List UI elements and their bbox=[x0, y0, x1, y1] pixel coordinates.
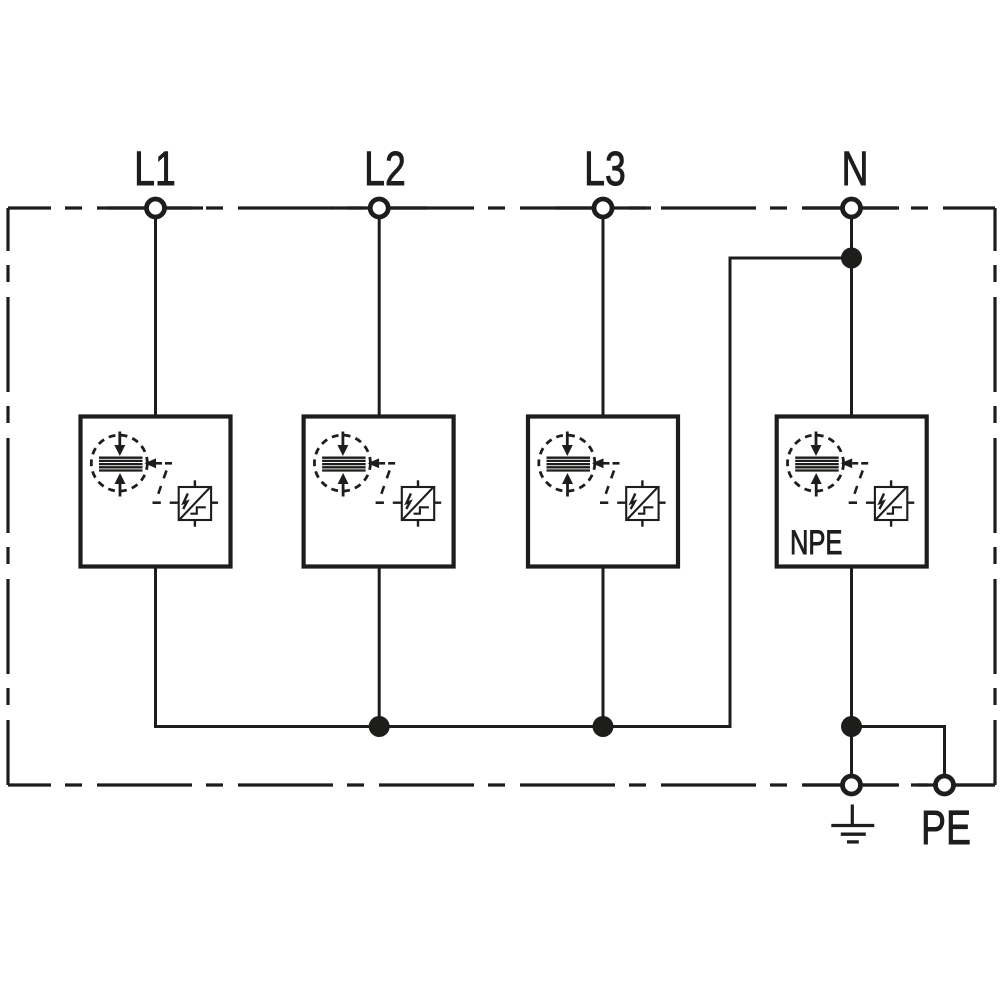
junction node NPE/PE bbox=[841, 716, 862, 737]
svg-text:L1: L1 bbox=[134, 143, 176, 197]
SPD module symbol L2 bbox=[314, 432, 441, 527]
wire N terminal to NPE module bbox=[850, 208, 853, 415]
solid boundary segments at terminals bbox=[107, 208, 995, 785]
SPD module box N-PE bbox=[777, 417, 927, 567]
svg-text:L2: L2 bbox=[364, 143, 406, 197]
wire L3 terminal to module bbox=[602, 208, 605, 415]
wire L3 module to bus bbox=[602, 569, 605, 727]
junction node N bbox=[841, 248, 862, 269]
terminal L2 bbox=[370, 199, 388, 217]
SPD module symbol N-PE bbox=[788, 432, 915, 527]
terminal L3 bbox=[594, 199, 612, 217]
SPD module box L1 bbox=[81, 417, 231, 567]
device boundary (dash-dot enclosure) bbox=[8, 208, 995, 785]
wire L1 down + common bus + riser to N node bbox=[156, 258, 852, 727]
svg-text:NPE: NPE bbox=[790, 525, 842, 562]
SPD module box L2 bbox=[304, 417, 454, 567]
terminal earth bbox=[843, 776, 861, 794]
svg-text:PE: PE bbox=[921, 802, 971, 856]
SPD module symbol L1 bbox=[91, 432, 218, 527]
wire L1 terminal to module bbox=[154, 208, 157, 415]
junction node on bus at L3 bbox=[593, 716, 614, 737]
terminal L1 bbox=[147, 199, 165, 217]
SPD module box L3 bbox=[528, 417, 678, 567]
ground symbol bbox=[831, 805, 874, 842]
wire PE branch bbox=[852, 727, 945, 786]
svg-text:N: N bbox=[841, 143, 868, 197]
svg-text:L3: L3 bbox=[584, 143, 626, 197]
wire L2 terminal to module bbox=[378, 208, 381, 415]
terminal N bbox=[843, 199, 861, 217]
wire NPE module to earth terminal bbox=[850, 569, 853, 786]
wire L2 module to bus bbox=[378, 569, 381, 727]
SPD module symbol L3 bbox=[539, 432, 666, 527]
junction node on bus at L2 bbox=[369, 716, 390, 737]
terminal PE bbox=[936, 776, 954, 794]
